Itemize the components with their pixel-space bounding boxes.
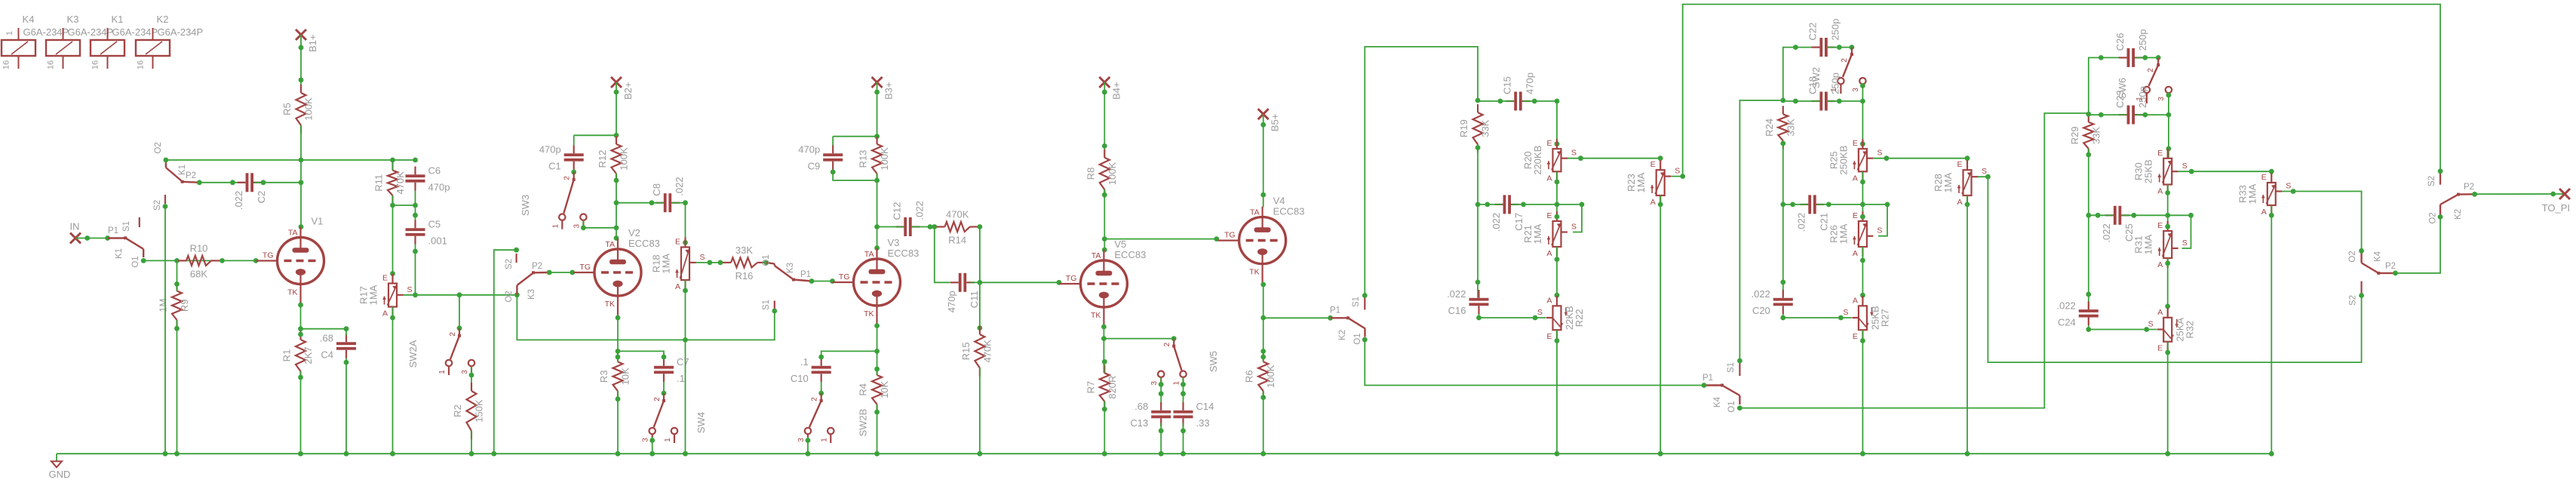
junction R19 top (1475, 98, 1481, 103)
junction (1102, 359, 1107, 365)
junction output pin (2550, 192, 2556, 197)
resistor R29 (2069, 114, 2102, 157)
wire B5+ to V4 plate (1263, 114, 1264, 207)
svg-text:K2: K2 (157, 14, 169, 25)
junction R25 A pin (1860, 180, 1865, 185)
junction (649, 438, 655, 443)
junction C7 pin (662, 355, 667, 360)
junction (718, 260, 723, 266)
junction V5 plate node (1102, 236, 1107, 241)
svg-text:R24: R24 (1764, 118, 1775, 137)
junction (1555, 99, 1560, 104)
svg-text:2: 2 (1841, 58, 1849, 63)
tube V2 (573, 227, 660, 316)
capacitor C23 (2114, 86, 2148, 124)
wire IN to K1 P1 (75, 238, 115, 239)
svg-text:.33: .33 (1196, 417, 1210, 429)
svg-text:A: A (1650, 198, 1656, 207)
junction R26 A pin (1860, 258, 1865, 263)
wire R26 A (1862, 247, 1863, 306)
svg-text:E: E (1853, 139, 1858, 148)
svg-text:150K: 150K (474, 399, 485, 423)
wire R1 to rail (300, 371, 302, 454)
capacitor C13 (1130, 401, 1171, 429)
junction (2086, 327, 2091, 332)
svg-text:TK: TK (605, 300, 615, 309)
svg-text:25KB: 25KB (2143, 159, 2154, 183)
svg-text:B2+: B2+ (622, 82, 634, 100)
svg-text:S2: S2 (2427, 176, 2436, 186)
junction (616, 451, 621, 457)
junction (261, 180, 266, 185)
junction R23 S pin (1680, 174, 1685, 179)
junction TG pin (253, 258, 259, 263)
svg-text:1: 1 (664, 438, 672, 442)
relay contact K2 P1-O1-S1 (1330, 296, 1365, 345)
svg-text:.022: .022 (1796, 213, 1807, 232)
svg-text:B3+: B3+ (883, 82, 895, 100)
wire C4 top (345, 329, 347, 336)
junction (220, 258, 225, 263)
junction S1 pin (772, 309, 777, 314)
wire E column (392, 205, 394, 284)
junction (2269, 169, 2274, 174)
junction (469, 373, 474, 378)
svg-text:100K: 100K (619, 147, 630, 171)
capacitor C17 (1491, 195, 1524, 232)
junction TK pin (1101, 325, 1107, 330)
junction SW4 pin 2 (662, 391, 667, 396)
svg-text:R6: R6 (1244, 370, 1255, 383)
wire node to V4 grid (1104, 238, 1218, 240)
tube V5 (1059, 238, 1146, 328)
wire K4 P2 to K2 O2 (2396, 217, 2441, 273)
junction (649, 451, 655, 457)
junction R31 A pin (2165, 260, 2170, 266)
svg-text:TA: TA (605, 240, 615, 249)
svg-text:V1: V1 (312, 216, 324, 227)
svg-text:A: A (2157, 260, 2163, 269)
svg-text:R29: R29 (2069, 127, 2080, 145)
junction C24 pin (2086, 292, 2091, 297)
svg-text:S1: S1 (762, 300, 771, 310)
svg-text:C10: C10 (791, 373, 809, 384)
pad TO_PI (2542, 189, 2570, 214)
junction (1181, 382, 1186, 387)
wire K1 S2 to rail (164, 207, 166, 454)
wire C7 to SW4 (663, 382, 665, 398)
svg-text:.022: .022 (2101, 223, 2112, 242)
junction R24 top (1780, 98, 1785, 103)
pad IN (70, 221, 81, 244)
wire R21 A (1556, 247, 1558, 306)
wire R4 lead (877, 351, 878, 375)
junction (1181, 428, 1186, 433)
capacitor C18 (1807, 72, 1841, 110)
wire C23 left (2089, 114, 2126, 115)
junction (1159, 451, 1164, 457)
junction TA pin (1260, 192, 1266, 198)
junction (1658, 451, 1663, 457)
svg-text:S: S (1877, 226, 1882, 235)
svg-text:.1: .1 (800, 356, 809, 368)
svg-text:O1: O1 (762, 254, 771, 266)
svg-text:ECC83: ECC83 (628, 238, 660, 249)
svg-text:E: E (1957, 160, 1962, 169)
wire C8 to R18 (671, 203, 685, 248)
svg-text:S: S (1843, 308, 1848, 317)
junction TG pin (1214, 236, 1219, 241)
relay contact K4 P1-O1-S1 (1702, 361, 1739, 413)
junction (1102, 143, 1107, 149)
junction P2 pin (197, 180, 202, 185)
svg-text:TK: TK (1249, 268, 1259, 277)
junction (1102, 192, 1107, 198)
svg-text:68K: 68K (190, 268, 207, 279)
svg-text:33K: 33K (2090, 127, 2102, 144)
svg-text:.022: .022 (233, 191, 244, 210)
svg-text:16: 16 (91, 60, 100, 69)
junction R27 S pin (1838, 315, 1844, 321)
svg-text:E: E (382, 274, 388, 283)
wire R18 A leg (685, 280, 686, 340)
pad B2+ (611, 77, 634, 100)
wire B4+ to R8 (1104, 82, 1105, 158)
svg-text:P1: P1 (800, 270, 811, 279)
relay contact K3 O1-P1-S1 (762, 254, 812, 310)
capacitor C5 (406, 219, 447, 247)
wire R13 to V3 plate (877, 174, 878, 249)
svg-text:B1+: B1+ (307, 35, 318, 53)
svg-text:.68: .68 (320, 333, 333, 344)
wire R18 A to rail (685, 340, 686, 454)
junction (1498, 99, 1503, 104)
svg-text:3: 3 (642, 438, 650, 442)
svg-text:1: 1 (820, 438, 828, 442)
wire SW2A to R2 (471, 367, 472, 392)
wire R25 A (1862, 171, 1863, 221)
resistor R11 (373, 162, 407, 204)
wire R5 to plate node (300, 125, 302, 227)
svg-text:C20: C20 (1752, 305, 1770, 316)
junction C10 pin (818, 355, 824, 360)
relay contact K3 O2-P2-S2 (505, 254, 549, 303)
capacitor C4 (320, 333, 356, 361)
svg-text:470K: 470K (946, 209, 969, 220)
svg-text:A: A (675, 282, 680, 291)
svg-text:E: E (675, 238, 680, 247)
junction (874, 451, 880, 457)
wire B2+ to R12 (616, 82, 617, 144)
svg-text:2: 2 (653, 397, 662, 401)
svg-text:250p: 250p (1830, 72, 1841, 94)
svg-text:G6A-234P: G6A-234P (23, 26, 69, 38)
junction (1102, 407, 1107, 412)
junction SW2B pin 2 (818, 391, 824, 396)
junction SW2 pin 2 (1850, 45, 1855, 50)
svg-text:1: 1 (438, 370, 447, 374)
svg-text:A: A (2157, 187, 2163, 196)
junction (1475, 145, 1481, 150)
junction (683, 451, 688, 457)
junction (616, 355, 621, 360)
svg-text:16: 16 (2, 60, 11, 69)
svg-text:33K: 33K (1480, 119, 1491, 137)
junction (874, 349, 880, 354)
wire R6 lead (1263, 351, 1264, 361)
svg-text:.022: .022 (674, 177, 685, 195)
wire R31 A (2167, 258, 2169, 318)
junction (978, 280, 983, 285)
potentiometer R25 (1828, 139, 1882, 183)
wire R3 lead (617, 351, 619, 361)
svg-text:.022: .022 (1447, 288, 1466, 300)
svg-text:R16: R16 (735, 270, 754, 281)
junction C9 tap (874, 134, 880, 139)
wire C10 to SW2B (821, 382, 822, 398)
junction (413, 249, 418, 254)
svg-text:ECC83: ECC83 (1114, 249, 1146, 260)
resistor R16 (723, 245, 766, 281)
junction (2142, 112, 2148, 118)
wire C18 right (1828, 101, 1862, 149)
svg-text:S: S (407, 285, 413, 294)
svg-text:R7: R7 (1085, 381, 1096, 394)
junction O1 pin (141, 258, 146, 263)
resistor R10 (178, 242, 220, 279)
wire SW4 to rail (652, 437, 653, 454)
potentiometer R31 (2133, 221, 2188, 269)
svg-text:A: A (1546, 174, 1552, 183)
potentiometer R20 (1522, 139, 1577, 183)
svg-text:S2: S2 (153, 200, 162, 211)
capacitor C1 (539, 144, 584, 172)
resistor R7 (1085, 365, 1118, 410)
junction (764, 260, 769, 266)
svg-text:G6A-234P: G6A-234P (68, 26, 114, 38)
svg-text:33K: 33K (735, 245, 753, 256)
svg-text:C18: C18 (1807, 76, 1819, 94)
wire C25 right (2122, 215, 2191, 248)
svg-text:K4: K4 (23, 14, 35, 25)
svg-text:C23: C23 (2114, 90, 2126, 108)
wire R30 S to R33 (2178, 171, 2272, 173)
wire R20 S to R23 (1567, 158, 1660, 161)
junction (469, 451, 474, 457)
resistor R5 (281, 85, 315, 134)
wire R12 to V2 plate (616, 174, 617, 238)
pad B1+ (296, 29, 318, 52)
junction TK pin (298, 303, 303, 308)
wire R6 to rail (1263, 391, 1264, 454)
svg-text:470K: 470K (981, 340, 993, 363)
svg-text:1MA: 1MA (1635, 172, 1647, 192)
svg-text:TK: TK (1091, 311, 1101, 320)
resistor R1 (281, 331, 315, 380)
wire SW2B to rail (807, 437, 809, 454)
capacitor C24 (2056, 300, 2098, 328)
svg-text:250p: 250p (2137, 29, 2148, 51)
junction TK pin (874, 323, 880, 328)
resistor R8 (1085, 149, 1118, 198)
capacitor C15 (1502, 72, 1536, 110)
junction (2131, 213, 2136, 218)
junction R31 E pin (2165, 224, 2170, 229)
junction (1102, 451, 1107, 457)
wire cathode to C4 (301, 328, 347, 330)
wire C17 left (1478, 204, 1503, 205)
resistor R4 (858, 367, 891, 413)
wire C13 to rail (1160, 423, 1162, 454)
junction (1555, 451, 1560, 457)
svg-text:470p: 470p (428, 182, 450, 193)
junction K4 S1 pin (1737, 358, 1742, 364)
svg-text:R4: R4 (858, 383, 869, 396)
junction K2 S2 pin (2438, 168, 2443, 174)
svg-text:R14: R14 (948, 235, 966, 246)
wire C5 to S net (415, 245, 416, 295)
junction K4 O1 pin (1737, 405, 1742, 411)
junction (978, 451, 983, 457)
junction (174, 451, 180, 457)
svg-text:K4: K4 (1713, 396, 1722, 408)
wire O1 to V1 grid (143, 260, 256, 261)
svg-text:220KB: 220KB (1532, 146, 1543, 175)
svg-text:V4: V4 (1273, 195, 1285, 207)
junction P2 pin (547, 270, 552, 275)
junction (299, 180, 304, 185)
wire V5 cathode (1103, 327, 1104, 339)
wire plate row to R11 (392, 160, 394, 171)
svg-text:S2: S2 (2349, 295, 2358, 306)
wire C14 to rail (1183, 423, 1184, 454)
junction SW2A pin 2 (457, 325, 462, 331)
svg-text:SW4: SW4 (695, 412, 707, 433)
relay contact K4 O2-P2-S2 (2348, 251, 2396, 306)
junction (298, 326, 303, 331)
wire R28 S output (1978, 177, 2362, 362)
relay contact K2 O2-P2-S2 (2427, 171, 2475, 224)
junction (174, 258, 180, 263)
junction (174, 326, 180, 331)
svg-text:100K: 100K (1265, 365, 1276, 388)
junction R25 S pin (1884, 155, 1890, 161)
junction plate node (299, 158, 304, 163)
potentiometer R21 (1522, 211, 1577, 258)
switch SW2B (797, 393, 834, 443)
resistor R9 (158, 283, 191, 329)
svg-text:O1: O1 (1727, 401, 1736, 412)
ground GND (49, 454, 71, 480)
svg-text:S: S (1675, 167, 1680, 176)
svg-text:V2: V2 (628, 227, 640, 238)
svg-text:P1: P1 (108, 226, 118, 235)
junction C11 branch (932, 224, 937, 229)
svg-text:250p: 250p (1830, 19, 1841, 41)
wire R14 right (978, 227, 980, 283)
svg-text:A: A (1853, 296, 1858, 305)
svg-text:1MA: 1MA (1942, 172, 1954, 192)
switch SW2A (438, 328, 474, 375)
wire R7 top (1103, 339, 1104, 374)
capacitor C11 (946, 273, 980, 312)
junction (413, 203, 418, 208)
relay coil K1 (91, 14, 158, 69)
wire stack1 column (1477, 144, 1478, 297)
svg-text:C15: C15 (1502, 76, 1513, 94)
junction TG pin (1057, 280, 1062, 285)
junction C4 pin (344, 326, 349, 331)
svg-text:S1: S1 (1727, 362, 1736, 373)
junction (2166, 112, 2172, 118)
junction K4 P1 pin (1702, 383, 1707, 388)
svg-text:C2: C2 (256, 191, 267, 204)
svg-text:A: A (1853, 249, 1858, 258)
junction R15 pin (978, 325, 983, 331)
junction (230, 180, 235, 185)
junction (390, 203, 395, 208)
svg-text:TG: TG (1066, 274, 1077, 283)
wire K3 O2 down and across (517, 295, 774, 340)
wire R9 bottom (177, 320, 178, 454)
svg-text:470p: 470p (946, 291, 957, 312)
wire R23 A to rail (1660, 195, 1661, 454)
svg-text:G6A-234P: G6A-234P (112, 26, 158, 38)
svg-text:C26: C26 (2114, 33, 2126, 51)
wire SW5 left to C13 (1160, 377, 1162, 406)
junction (1658, 155, 1663, 161)
svg-text:K3: K3 (527, 289, 536, 300)
svg-text:.022: .022 (914, 201, 926, 220)
wire S net to SW2A (459, 295, 460, 328)
potentiometer R18 (651, 238, 705, 292)
wire V3 cathode (877, 325, 878, 351)
svg-text:SW2A: SW2A (407, 340, 419, 368)
svg-text:R10: R10 (190, 242, 208, 254)
svg-text:E: E (2157, 344, 2163, 353)
junction (1260, 395, 1266, 400)
junction C9 pin (831, 170, 836, 175)
junction C8 tap (614, 200, 619, 205)
capacitor C6 (406, 165, 450, 193)
svg-text:E: E (1853, 211, 1858, 220)
wire R3 to rail (617, 391, 619, 454)
svg-text:33K: 33K (1785, 118, 1796, 136)
wire R15 leg (979, 282, 981, 334)
svg-text:SW5: SW5 (1208, 351, 1219, 372)
junction R33 S pin (2291, 189, 2296, 194)
junction TA pin (1102, 248, 1107, 253)
svg-text:E: E (2157, 149, 2163, 158)
potentiometer R23 (1626, 160, 1680, 207)
svg-text:C12: C12 (892, 202, 903, 220)
junction (1159, 391, 1164, 396)
junction (614, 178, 619, 183)
junction (1485, 202, 1490, 208)
wire K3 S2 ground leg (494, 250, 517, 454)
wire SW3 to plate node (583, 220, 616, 228)
relay coil K2 (136, 14, 203, 69)
relay contact K1 O2-P2-S2 (153, 142, 199, 211)
svg-text:S: S (1537, 308, 1543, 317)
junction TK pin (1260, 282, 1266, 288)
svg-text:R22: R22 (1574, 309, 1585, 327)
svg-text:SW2B: SW2B (858, 409, 869, 437)
capacitor C10 (791, 356, 831, 384)
svg-text:E: E (2157, 221, 2163, 230)
svg-text:3: 3 (797, 438, 806, 442)
junction (874, 410, 880, 415)
